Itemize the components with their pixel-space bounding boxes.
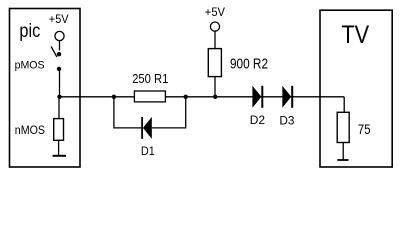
diode D1 (cathode bar, points left) — [141, 117, 143, 139]
wire: node down to nMOS — [58, 97, 60, 119]
wire: pMOS to output node — [59, 71, 61, 97]
diode D3 cathode bar — [291, 86, 293, 108]
pMOS lower contact dot — [57, 67, 61, 71]
diode D3 triangle — [282, 86, 291, 108]
diode D2 triangle — [252, 86, 261, 108]
svg-text:D2: D2 — [250, 113, 266, 127]
node A: left junction of R1/D1 pair — [112, 95, 116, 99]
svg-text:+5V: +5V — [49, 12, 70, 26]
wire: +5V terminal to R2 — [214, 31, 216, 48]
ground (TV side) — [337, 159, 348, 161]
ground (pic side) — [53, 155, 66, 157]
box TV — [320, 10, 392, 167]
resistor R1 — [134, 91, 165, 102]
wire: nMOS to ground — [58, 140, 60, 155]
diode D1 triangle — [143, 117, 152, 139]
wire: main horizontal net from R1 to TV corner — [165, 96, 344, 98]
node: pic output junction — [57, 95, 61, 99]
svg-text:nMOS: nMOS — [15, 123, 45, 137]
node B: right junction of R1/D1 pair — [184, 95, 188, 99]
svg-text:pMOS: pMOS — [15, 60, 45, 72]
wire: D1 branch left leg — [114, 97, 141, 128]
transistor nMOS (drawn as box) — [54, 119, 64, 141]
switch pMOS (open switch arm) — [51, 47, 57, 57]
wire: main horizontal net from pic node to R1 — [60, 96, 135, 98]
svg-text:D1: D1 — [141, 144, 155, 158]
svg-text:TV: TV — [341, 21, 369, 49]
wire: D1 branch right leg — [152, 97, 186, 128]
wire: drop into TV load resistor — [343, 97, 345, 113]
resistor 75 (TV load) — [337, 112, 349, 142]
svg-text:900 R2: 900 R2 — [230, 57, 268, 73]
supply terminal circle (R2 +5V) — [210, 22, 219, 31]
svg-text:+5V: +5V — [205, 5, 226, 19]
diode D2 cathode bar — [261, 86, 263, 108]
wire: +5V terminal to pMOS switch — [59, 41, 61, 51]
resistor R2 — [208, 49, 221, 77]
svg-text:250 R1: 250 R1 — [132, 72, 168, 86]
svg-text:D3: D3 — [279, 113, 294, 127]
wire: 75 resistor to ground — [342, 143, 344, 160]
svg-text:pic: pic — [19, 21, 40, 42]
svg-text:75: 75 — [358, 121, 371, 137]
supply terminal circle (pic +5V) — [55, 31, 64, 40]
node: R2 junction on main net — [213, 95, 217, 99]
wire: R2 to main net — [214, 77, 216, 97]
pMOS upper contact dot — [57, 52, 61, 56]
box pic (microcontroller) — [10, 9, 81, 168]
